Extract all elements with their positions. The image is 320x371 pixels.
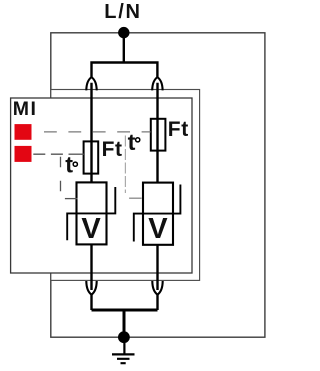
svg-text:L/N: L/N [104,1,142,23]
svg-text:V: V [148,213,168,245]
svg-text:Ft: Ft [102,138,123,161]
svg-text:MI: MI [13,98,38,120]
svg-text:V: V [81,213,101,245]
svg-text:Ft: Ft [168,118,189,141]
svg-text:t: t [65,152,73,178]
svg-text:t: t [128,129,136,155]
